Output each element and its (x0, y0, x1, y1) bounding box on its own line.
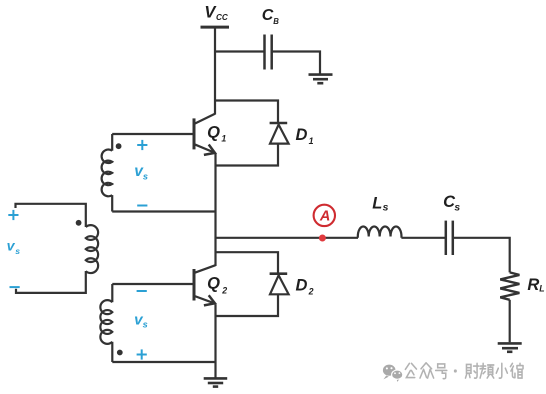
dot Q2 secondary phasing (117, 350, 123, 356)
wire Cs to RL (454, 238, 510, 273)
watermark (383, 363, 523, 382)
svg-text:2: 2 (308, 287, 314, 297)
馆 (510, 363, 523, 378)
labels blue (8, 140, 147, 360)
ground (below RL) (498, 343, 522, 351)
diode D1 (270, 122, 288, 125)
ground (below Q2) (204, 378, 228, 386)
minus primary (10, 286, 20, 288)
ground (top right, after CB) (309, 75, 333, 84)
minus Q1 secondary (137, 205, 147, 207)
plus Q1 secondary (137, 144, 147, 146)
wechat icon (383, 365, 396, 380)
resistor RL (500, 272, 519, 299)
wire Ls to Cs (401, 237, 445, 239)
wire D1 bottom to Q1 emitter node (216, 144, 279, 166)
diode D2 (270, 272, 288, 275)
svg-text:R: R (527, 276, 539, 294)
wire Q2 secondary left side (111, 284, 113, 302)
inductor Q1 secondary winding (102, 149, 113, 196)
svg-text:A: A (319, 209, 330, 225)
chinese text strokes (405, 363, 523, 379)
svg-text:Q: Q (207, 124, 220, 142)
wire Vcc rail down to Q1 collector (214, 27, 216, 115)
wire Q1 collector to D1 top (215, 101, 278, 123)
公 (405, 363, 416, 377)
wire primary top with terminal stub (16, 204, 86, 227)
plus primary (8, 214, 18, 216)
号 (436, 364, 447, 379)
transistor Q2 (193, 269, 196, 301)
wire Q1 secondary left side (111, 134, 113, 151)
svg-text:C: C (262, 7, 274, 24)
svg-text:s: s (143, 320, 148, 330)
svg-text:B: B (273, 17, 279, 26)
svg-text:L: L (372, 194, 382, 212)
wire Q1 emitter down through node to Q2 collector (214, 153, 216, 266)
dot Q1 secondary phasing (116, 143, 122, 149)
射 (465, 363, 479, 378)
svg-text:D: D (296, 126, 308, 144)
node A marker (314, 205, 335, 242)
svg-text:s: s (383, 203, 389, 214)
svg-text:s: s (454, 203, 460, 214)
· (454, 369, 457, 372)
wire Q1 secondary bottom (112, 210, 215, 212)
Vcc supply bar (201, 26, 230, 29)
labels black (204, 3, 544, 296)
wire Vcc to CB (215, 50, 264, 52)
wire RL to ground (509, 300, 511, 343)
wire Q2 collector to D2 top (216, 252, 279, 272)
capacitor Cs (445, 221, 448, 255)
wire output node A (216, 237, 359, 239)
svg-text:D: D (296, 277, 308, 295)
inductor Q2 secondary winding (100, 300, 112, 344)
svg-text:s: s (143, 171, 148, 181)
plus Q2 secondary (137, 354, 147, 356)
inductor primary winding (86, 225, 98, 273)
svg-text:CC: CC (216, 13, 229, 22)
svg-text:s: s (15, 246, 20, 256)
svg-text:1: 1 (309, 136, 314, 146)
svg-text:2: 2 (221, 286, 227, 296)
频 (480, 363, 494, 378)
dot primary phasing (76, 220, 82, 226)
capacitor CB (263, 35, 266, 70)
svg-text:1: 1 (221, 134, 226, 144)
wire Q2 secondary bottom (112, 361, 215, 363)
svg-text:Q: Q (207, 275, 220, 293)
wire CB to ground (273, 52, 321, 74)
inductor Ls (358, 226, 402, 237)
众 (420, 363, 434, 378)
wire primary bottom with terminal stub (16, 271, 86, 293)
小 (496, 363, 507, 378)
transistor Q1 (193, 118, 196, 149)
wire D2 bottom to Q2 emitter node (216, 294, 279, 316)
svg-text:L: L (539, 284, 544, 294)
wire Q2 emitter down to ground (214, 305, 216, 378)
minus Q2 secondary (137, 290, 147, 292)
